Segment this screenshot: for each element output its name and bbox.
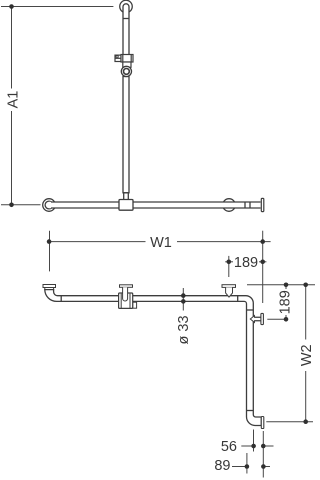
svg-text:89: 89 <box>214 458 230 474</box>
svg-text:A1: A1 <box>6 91 22 109</box>
svg-text:56: 56 <box>221 439 237 455</box>
svg-text:ø 33: ø 33 <box>176 315 192 344</box>
svg-text:W1: W1 <box>150 235 172 251</box>
svg-text:189: 189 <box>234 255 258 271</box>
svg-text:W2: W2 <box>299 344 315 366</box>
svg-text:189: 189 <box>277 290 293 314</box>
